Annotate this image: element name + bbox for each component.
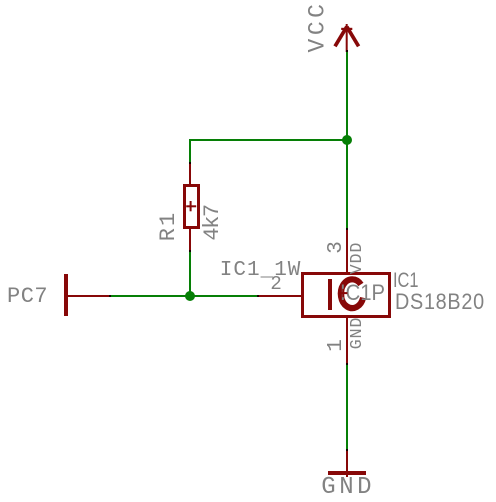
- port label PC7: [7, 286, 48, 308]
- IC IC1 body: [301, 272, 391, 318]
- ground symbol bar: [328, 471, 366, 475]
- wire IC pin 1 to GND: [346, 365, 348, 449]
- joint R1 bottom: [189, 250, 191, 252]
- joint pin 3: [346, 228, 348, 230]
- label R1: [158, 210, 180, 242]
- junction dot PC7 net: [185, 291, 195, 301]
- IC origin cross: [336, 286, 350, 300]
- IC1 pin 1 wire: [346, 318, 348, 363]
- joint pin 1: [346, 363, 348, 365]
- joint R1 top: [189, 162, 191, 164]
- ground label GND: [321, 476, 375, 500]
- IC1 pin 1 number: [325, 339, 346, 352]
- IC logo I bar: [328, 279, 332, 311]
- label IC1: [393, 270, 418, 291]
- wire R1 bottom vertical: [189, 252, 191, 297]
- value 4k7: [202, 205, 224, 241]
- joint PC7: [109, 295, 111, 297]
- wire VCC vertical to IC pin 3: [346, 52, 348, 228]
- resistor R1 body: [183, 184, 200, 229]
- joint VCC stem: [346, 50, 348, 52]
- IC1 pin 3 number: [325, 241, 346, 254]
- IC1 pin 3 wire: [346, 230, 348, 273]
- wire PC7 to IC pin 2: [111, 295, 258, 297]
- IC1 pin 3 name VDD: [349, 242, 366, 274]
- joint pin 2: [257, 295, 259, 297]
- IC logo C ring: [334, 273, 376, 315]
- value DS18B20: [395, 291, 485, 313]
- port PC7 stub wire: [66, 295, 109, 297]
- net label VCC: [307, 0, 330, 54]
- resistor R1 origin cross: [184, 199, 199, 214]
- wire horizontal VCC tap to R1: [189, 139, 347, 141]
- junction dot VCC/R1 tap: [342, 135, 352, 145]
- resistor R1 pin bottom: [189, 229, 191, 250]
- net label IC1_1W: [220, 260, 302, 281]
- wire R1 top vertical: [189, 139, 191, 163]
- resistor R1 pin top: [189, 164, 191, 185]
- joint GND: [346, 449, 348, 451]
- IC1 pin 2 number: [270, 275, 281, 294]
- IC1 pin 2 wire: [259, 295, 305, 297]
- power symbol VCC arrow: [326, 18, 368, 54]
- IC text IC1P: [340, 282, 385, 304]
- IC1 pin 1 name GND: [349, 317, 366, 349]
- ground symbol stem: [346, 451, 348, 478]
- port PC7 bar: [64, 274, 67, 316]
